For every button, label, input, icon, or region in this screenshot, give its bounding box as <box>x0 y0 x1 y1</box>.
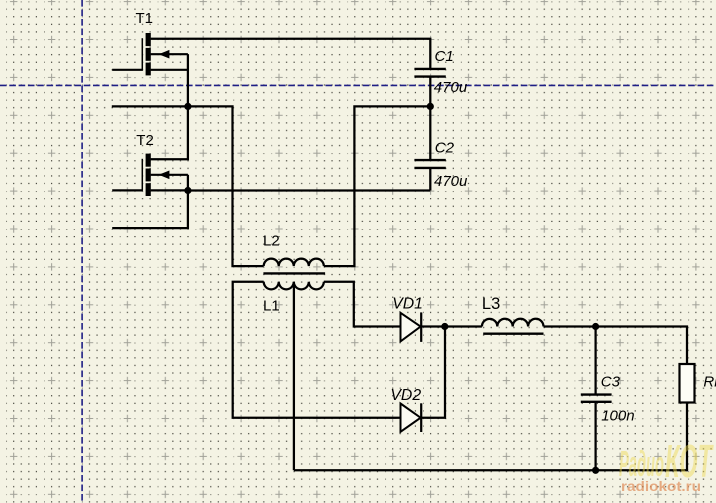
wire: L3 to load resistor <box>544 327 688 365</box>
diode VD1 <box>401 313 421 342</box>
svg-text:T1: T1 <box>136 10 154 27</box>
svg-text:C1: C1 <box>435 48 454 65</box>
wire: T2 body/source to node B <box>187 175 189 191</box>
node E (C3 bottom junction) <box>592 467 599 474</box>
wire: VD2 cathode up-link to node C <box>421 327 445 418</box>
wire: L1 left leg down to VD2 anode <box>233 282 401 418</box>
transistor T2 <box>112 154 188 196</box>
inductor L3 <box>482 319 544 327</box>
svg-text:L1: L1 <box>263 298 280 315</box>
wire: node B stub down-left <box>112 191 188 229</box>
node: capacitor midpoint <box>427 103 434 110</box>
wire: L1 right leg down to VD1 anode <box>324 282 401 327</box>
wire: VD1 cathode to L3 <box>421 325 482 327</box>
wire: center tap down to bottom rail <box>293 282 295 470</box>
wire: bottom return rail <box>294 469 688 471</box>
inductor L3 core bar <box>483 333 543 335</box>
inductor L2 (transformer primary) <box>264 259 324 267</box>
diode VD2 <box>401 404 421 432</box>
wire: node A rail to L2 left leg <box>112 106 264 266</box>
wire: T1 body/source down to node A <box>187 54 189 106</box>
node A (T1 source / T2 drain junction) <box>184 103 191 110</box>
transformer core <box>263 272 325 274</box>
node B (T2 source junction) <box>184 187 191 194</box>
svg-text:radiokot.ru: radiokot.ru <box>621 479 701 494</box>
node C (VD1/VD2 cathode junction) <box>441 323 448 330</box>
resistor R (load) <box>680 364 695 403</box>
svg-text:T2: T2 <box>136 132 154 149</box>
svg-text:470u: 470u <box>434 173 468 190</box>
svg-text:470u: 470u <box>434 79 468 96</box>
svg-text:L3: L3 <box>482 295 500 313</box>
svg-text:100n: 100n <box>601 408 634 425</box>
svg-text:VD1: VD1 <box>392 295 423 312</box>
svg-text:L2: L2 <box>263 233 280 250</box>
svg-text:C2: C2 <box>435 139 455 156</box>
svg-text:C3: C3 <box>601 373 621 390</box>
svg-text:Rн: Rн <box>703 373 716 390</box>
transistor T1 <box>112 33 188 75</box>
capacitor C1 <box>414 69 445 77</box>
inductor L1 (transformer secondary, center-tapped) <box>264 282 324 290</box>
wire: bottom rail node B to C2 bottom <box>188 189 430 191</box>
wire: R bottom lead <box>686 403 688 471</box>
wire: T1 drain rail to C1 top <box>151 39 431 69</box>
wire: cap midpoint to L2 right leg <box>324 106 431 266</box>
svg-text:VD2: VD2 <box>390 387 421 404</box>
capacitor C2 <box>414 160 445 168</box>
svg-text:Радио: Радио <box>619 443 664 484</box>
node D (C3 top junction) <box>592 323 599 330</box>
watermark radiokot logo <box>619 435 714 494</box>
capacitor C3 <box>594 327 596 395</box>
wire: T2 drain up-link to node A <box>151 106 188 159</box>
